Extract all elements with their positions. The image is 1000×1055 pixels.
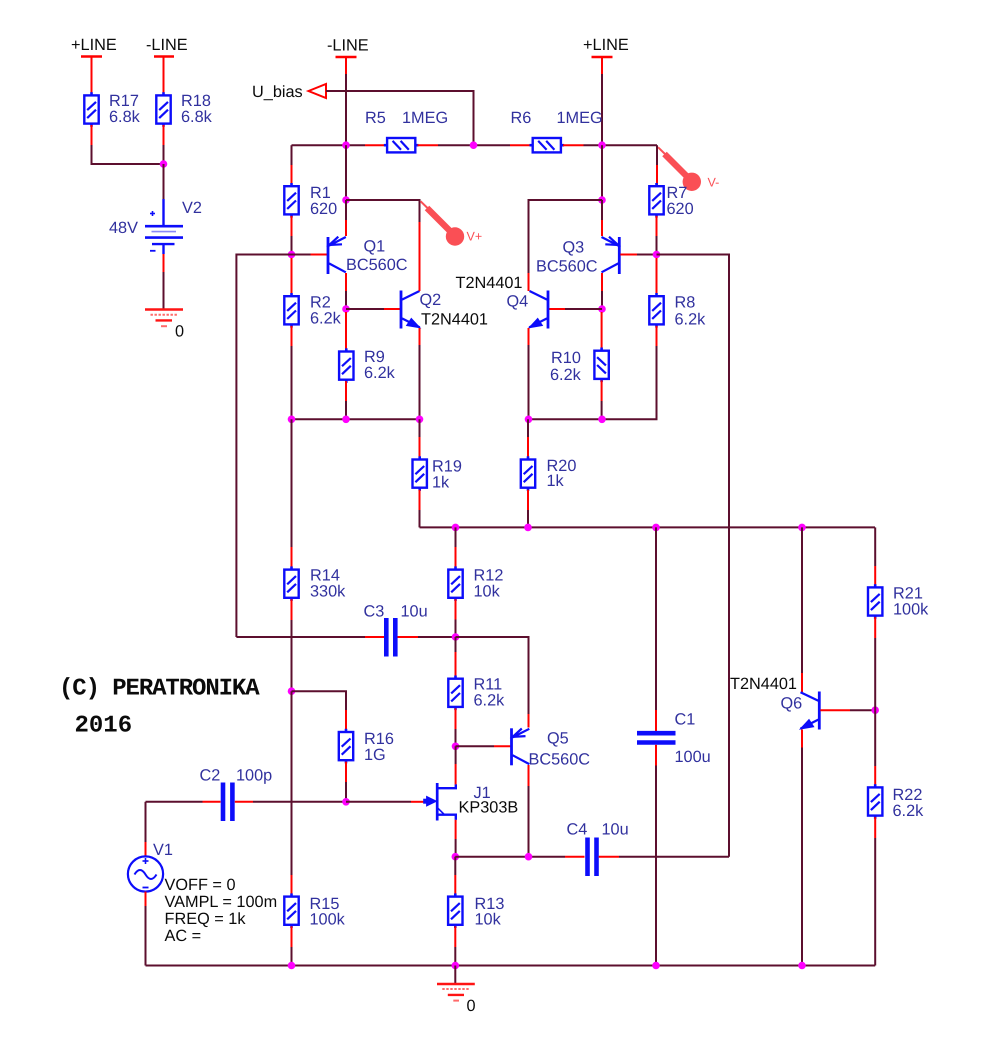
wire C4 row left <box>455 856 565 858</box>
svg-text:(C) PERATRONIKA: (C) PERATRONIKA <box>59 676 260 703</box>
wire C2 to R16 node <box>253 801 346 803</box>
svg-text:6.2k: 6.2k <box>364 364 396 382</box>
svg-text:C3: C3 <box>364 603 385 621</box>
wire Q4 collector pin <box>528 273 530 291</box>
wire J1 source pin <box>455 820 457 857</box>
svg-text:6.2k: 6.2k <box>893 802 925 820</box>
wire Q5 collector pin <box>528 765 530 857</box>
V1 parameter text <box>165 876 278 945</box>
wire C1 bottom pin <box>655 745 657 966</box>
transistor Q4 T2N4401 (NPN mirrored) <box>456 274 549 329</box>
wire -LINE down to rail <box>345 74 347 145</box>
wire bottom ground bus <box>146 965 876 967</box>
capacitor C1 100u <box>637 527 711 766</box>
svg-text:BC560C: BC560C <box>529 751 591 769</box>
wire R19 bottom pin <box>419 490 421 528</box>
wire V+ net to Q2 collector corner <box>346 200 420 222</box>
svg-text:100u: 100u <box>675 748 711 766</box>
wire R5 left pin <box>365 144 385 146</box>
wire R1 top (rail corner down) <box>291 145 293 165</box>
wire R6 left pin <box>510 144 531 146</box>
resistor R22 6.2k <box>868 710 924 820</box>
wire R11 bottom pin <box>455 708 457 746</box>
svg-text:R6: R6 <box>511 109 532 127</box>
wire R21 bottom pin <box>874 617 876 710</box>
wire J1 gate <box>346 801 424 803</box>
wire R15 bottom pin <box>291 926 293 965</box>
wire R8 bottom pin <box>656 326 658 419</box>
capacitor C4 10u <box>567 821 629 877</box>
svg-text:V+: V+ <box>467 230 483 244</box>
resistor R21 100k <box>868 527 929 618</box>
node Q6 base / R21 / R22 <box>871 706 879 714</box>
svg-text:V-: V- <box>708 176 720 190</box>
node C3/R12/R11 <box>452 633 460 641</box>
wire V2 bottom pin <box>163 254 165 272</box>
svg-text:R8: R8 <box>675 294 696 312</box>
wire rail R5 to R6 <box>438 144 510 146</box>
svg-text:48V: 48V <box>109 219 138 237</box>
svg-text:-LINE: -LINE <box>327 37 369 55</box>
svg-text:VAMPL = 100m: VAMPL = 100m <box>165 893 278 911</box>
svg-text:Q5: Q5 <box>547 730 569 748</box>
wire R16 bottom pin <box>345 762 347 802</box>
transistor Q1 BC560C (PNP) <box>328 237 408 274</box>
wire R1 top pin <box>291 165 293 185</box>
svg-text:-LINE: -LINE <box>146 36 188 54</box>
node rail/-LINE <box>342 141 350 149</box>
node bus/C1 <box>652 962 660 970</box>
wire R22 bottom pin <box>874 817 876 965</box>
wire Q3 emitter node rail <box>601 145 603 200</box>
copyright text <box>59 676 260 740</box>
svg-text:C1: C1 <box>675 711 696 729</box>
wire -LINE port pin <box>345 58 347 75</box>
svg-text:U_bias: U_bias <box>252 83 303 101</box>
transistor Q3 BC560C (PNP mirrored) <box>536 237 619 276</box>
port +LINE (left) <box>71 36 117 57</box>
svg-text:0: 0 <box>175 323 184 341</box>
probe V- <box>658 147 719 191</box>
transistor Q6 T2N4401 (NPN mirrored) <box>730 675 819 730</box>
wire R18 to junction <box>163 145 165 164</box>
svg-text:KP303B: KP303B <box>459 799 519 817</box>
resistor R6 1MEG <box>511 109 603 152</box>
node rail/+LINE <box>598 141 606 149</box>
wire +LINE port pin <box>601 58 603 75</box>
node bus/R10 <box>598 416 606 424</box>
wire R10 bottom pin <box>601 380 603 419</box>
wire main horizontal bus (output node) <box>420 526 876 528</box>
node R11/J1 drain/Q5 base <box>452 743 460 751</box>
wire R2 bottom pin <box>291 326 293 419</box>
transistor Q5 BC560C (PNP) <box>512 728 591 768</box>
node V+ net junction <box>342 196 350 204</box>
wire V1 bottom pin <box>145 892 147 966</box>
wire -LINE port to R18 <box>163 57 165 94</box>
wire R5 right pin <box>418 144 439 146</box>
wire rail R6 to corner <box>584 144 658 146</box>
wire C3 left pin <box>365 636 385 638</box>
port U_bias (off-page arrow) <box>252 83 326 101</box>
wire R1 to Q1 base node <box>291 236 293 255</box>
node Q3 base / R7 / R8 junction <box>653 251 661 259</box>
wire Q1 base junction to left vertical <box>236 255 291 638</box>
svg-text:C2: C2 <box>200 767 221 785</box>
node bus/R12 <box>452 524 460 532</box>
node bus/R13/ground <box>452 962 460 970</box>
resistor R15 100k <box>284 691 345 928</box>
node C2/R16/J1 gate <box>342 798 350 806</box>
resistor R17 <box>84 92 140 127</box>
resistor R7 620 <box>649 183 693 218</box>
resistor R8 6.2k <box>649 258 706 329</box>
svg-text:Q1: Q1 <box>364 238 386 256</box>
resistor R9 6.2k <box>339 312 396 383</box>
wire R7 bottom pin <box>656 216 658 236</box>
svg-text:VOFF = 0: VOFF = 0 <box>165 876 236 894</box>
node bus/Q2 emitter/R19 <box>416 416 424 424</box>
node bus/Q6 emitter <box>798 962 806 970</box>
wire +LINE port to R17 <box>91 57 93 94</box>
resistor R13 10k <box>448 857 504 929</box>
node bus/Q4 emitter/R20 <box>525 416 533 424</box>
svg-text:6.8k: 6.8k <box>181 108 213 126</box>
wire R9 bottom pin <box>345 381 347 419</box>
node bus/R2/R14 <box>288 416 296 424</box>
wire R12 bottom pin <box>455 599 457 637</box>
svg-text:T2N4401: T2N4401 <box>456 274 523 292</box>
svg-text:R5: R5 <box>365 109 386 127</box>
svg-text:100k: 100k <box>893 601 929 619</box>
wire R13 bottom pin <box>454 926 456 965</box>
wire R20 bottom pin <box>527 490 529 528</box>
transistor J1 KP303B (N-JFET) <box>423 783 518 821</box>
wire U_bias to rail junction <box>326 91 474 145</box>
svg-text:1k: 1k <box>432 474 450 492</box>
node R14/R16 junction <box>288 687 296 695</box>
svg-text:1MEG: 1MEG <box>402 109 448 127</box>
svg-text:100p: 100p <box>236 767 272 785</box>
wire Q4 base <box>549 308 602 310</box>
wire C4 left pin <box>565 856 585 858</box>
svg-text:1G: 1G <box>364 746 386 764</box>
port -LINE (middle) <box>327 37 369 58</box>
wire Q3 base pin <box>620 254 656 256</box>
node bus/R15 <box>288 962 296 970</box>
wire R7 top pin <box>656 165 658 185</box>
node rail/U_bias <box>470 141 478 149</box>
svg-text:V2: V2 <box>182 199 202 217</box>
svg-text:FREQ = 1k: FREQ = 1k <box>165 910 247 928</box>
battery V2 48V <box>109 199 202 254</box>
resistor R10 6.2k (mirrored) <box>550 312 609 384</box>
resistor R19 1k <box>413 419 462 491</box>
wire left emitter-degeneration bus <box>292 418 420 420</box>
resistor R20 1k <box>521 419 577 491</box>
svg-text:1k: 1k <box>547 472 565 490</box>
wire V2 to ground <box>163 272 165 309</box>
wire C2 left pin <box>203 801 221 803</box>
resistor R1 620 <box>284 183 337 218</box>
wire Q5 base <box>456 745 511 747</box>
wire R17 to junction <box>92 145 164 164</box>
wire C2 right pin <box>235 801 253 803</box>
svg-text:BC560C: BC560C <box>346 256 408 274</box>
node Q1 collector / Q2 base / R9 <box>342 305 350 313</box>
svg-text:Q4: Q4 <box>507 293 529 311</box>
svg-text:T2N4401: T2N4401 <box>730 675 797 693</box>
wire right emitter-degeneration bus <box>529 346 657 419</box>
resistor R16 1G <box>339 710 394 764</box>
node Q3 collector / Q4 base / R10 <box>598 305 606 313</box>
ground 0 (bottom) <box>437 966 476 1016</box>
node J1 source / C4 / R13 <box>452 853 460 861</box>
svg-text:10k: 10k <box>475 911 502 929</box>
node bus/R9 <box>342 416 350 424</box>
wire Q6 emitter pin <box>801 730 803 966</box>
svg-text:R10: R10 <box>551 349 581 367</box>
svg-text:Q3: Q3 <box>563 239 585 257</box>
wire R6 right pin <box>563 144 584 146</box>
svg-text:+LINE: +LINE <box>583 36 629 54</box>
probe V+ <box>421 201 483 246</box>
wire top rail left segment <box>292 144 366 146</box>
svg-text:10k: 10k <box>474 583 501 601</box>
svg-text:AC =: AC = <box>165 927 202 945</box>
wire R18 bottom <box>163 125 165 145</box>
resistor R18 <box>156 92 212 127</box>
node Q3 emitter junction <box>598 196 606 204</box>
wire +LINE down to rail <box>601 74 603 145</box>
wire input row: V1 corner to C2 <box>146 801 203 803</box>
wire C4 right pin <box>599 856 619 858</box>
svg-text:6.2k: 6.2k <box>474 692 506 710</box>
resistor R14 330k <box>284 419 346 601</box>
wire Q4 emitter pin <box>528 328 530 419</box>
source V1 (VSIN) <box>128 802 173 892</box>
resistor R5 1MEG <box>365 109 448 152</box>
wire R14 bottom pin <box>291 599 293 691</box>
wire junction to V2 <box>163 164 165 200</box>
svg-text:6.2k: 6.2k <box>550 366 582 384</box>
port -LINE (left) <box>146 36 188 57</box>
wire R17 bottom <box>91 125 93 145</box>
node bus/C1 <box>652 524 660 532</box>
wire Q1 collector pin <box>345 273 347 309</box>
wire R14 node to R16 <box>292 691 347 710</box>
wire Q2 emitter pin <box>419 328 421 419</box>
svg-text:330k: 330k <box>310 583 346 601</box>
svg-text:620: 620 <box>667 200 694 218</box>
wire rail corner down to R7 <box>656 145 658 165</box>
wire Q5 emitter pin <box>528 714 530 728</box>
wire C4 to right vertical <box>619 856 729 858</box>
wire Q1 base pin <box>292 254 328 256</box>
node Q1 base / R1 / R2 junction <box>288 251 296 259</box>
wire R7 to Q3 base node <box>656 236 658 255</box>
wire Q6 base <box>820 709 875 711</box>
svg-text:Q6: Q6 <box>781 695 803 713</box>
wire Q6 collector branch <box>801 527 803 692</box>
svg-text:6.8k: 6.8k <box>109 108 141 126</box>
svg-text:100k: 100k <box>310 911 346 929</box>
svg-text:10u: 10u <box>602 821 629 839</box>
wire Q2 base <box>346 308 400 310</box>
resistor R11 6.2k <box>448 637 505 710</box>
svg-text:6.2k: 6.2k <box>310 310 342 328</box>
svg-text:0: 0 <box>467 997 476 1015</box>
svg-text:2016: 2016 <box>75 713 133 740</box>
capacitor C3 10u <box>364 603 428 657</box>
svg-text:10u: 10u <box>401 603 428 621</box>
svg-text:BC560C: BC560C <box>536 258 598 276</box>
wire R1 bottom pin <box>291 216 293 236</box>
wire C3 right pin <box>398 636 419 638</box>
node Q5 collector / C4 row <box>525 853 533 861</box>
wire Q1 emitter node rail <box>345 145 347 200</box>
transistor Q2 T2N4401 (NPN) <box>401 291 488 329</box>
svg-text:620: 620 <box>310 200 337 218</box>
wire Q3 base node to right vertical (to C4) <box>657 255 730 857</box>
svg-text:6.2k: 6.2k <box>675 311 707 329</box>
node bus/R20 <box>524 524 532 532</box>
svg-text:V1: V1 <box>153 841 173 859</box>
wire Q3 emitter pin <box>601 200 603 236</box>
port +LINE (middle) <box>583 36 629 57</box>
wire Q2 collector pin <box>419 222 421 291</box>
svg-text:T2N4401: T2N4401 <box>421 311 488 329</box>
svg-text:1MEG: 1MEG <box>557 109 603 127</box>
node junction R17/R18/V2 <box>160 160 168 168</box>
wire Q1 emitter pin <box>345 200 347 236</box>
wire Q3 emitter net to Q4 collector corner <box>529 200 603 273</box>
ground 0 (V2) <box>145 310 184 341</box>
svg-text:Q2: Q2 <box>420 291 442 309</box>
wire C3 row to Q5 emitter branch <box>456 637 529 714</box>
node bus/Q6 collector <box>798 524 806 532</box>
capacitor C2 100p <box>200 767 273 822</box>
wire J1 drain pin <box>455 746 457 784</box>
svg-text:C4: C4 <box>567 821 588 839</box>
resistor R2 6.2k <box>284 258 341 328</box>
resistor R12 10k <box>448 527 503 601</box>
wire C3 row (left feedback row) <box>236 636 365 638</box>
svg-text:+LINE: +LINE <box>71 36 117 54</box>
wire Q3 collector pin <box>601 273 603 309</box>
wire C3 to R11/R12 node <box>418 636 456 638</box>
